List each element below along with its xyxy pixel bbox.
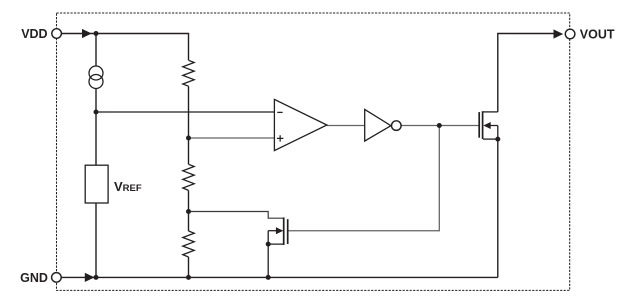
wire inverter output to node <box>401 125 439 127</box>
node GND rail left junction <box>94 275 99 280</box>
wire resistor column R2 to R3 <box>188 190 190 231</box>
svg-text:VOUT: VOUT <box>580 28 615 42</box>
wire M1 source down to GND rail <box>497 139 499 277</box>
node R3 bottom at GND rail <box>186 275 191 280</box>
wire resistor column R3 to GND rail <box>188 257 190 277</box>
node M2 source-bulk tie <box>266 242 271 247</box>
wire divider mid tap to M2 drain <box>189 212 284 219</box>
node M1 source-bulk tie <box>495 137 500 142</box>
node divider tap junction <box>186 136 191 141</box>
node inverter output junction <box>437 123 442 128</box>
transistor M2 hysteresis NMOS <box>268 217 288 277</box>
wire VDD rail: terminal to R1 top corner <box>61 34 188 61</box>
node M2 source at GND rail <box>266 275 271 280</box>
resistor R2 <box>183 164 194 190</box>
node VDD rail junction <box>94 31 99 36</box>
wire M1 drain up to VOUT rail <box>498 34 554 112</box>
node R2-R3 junction <box>186 209 191 214</box>
wire left column: VDD node down to current source <box>95 34 97 67</box>
wire inverting input: left column node to comparator - input <box>96 111 274 113</box>
svg-text:VREF: VREF <box>114 179 142 194</box>
comparator U1 <box>274 99 327 150</box>
inverter U2 <box>365 109 401 141</box>
node VREF / inverting input junction <box>94 110 99 115</box>
resistor R1 <box>183 60 194 86</box>
svg-text:GND: GND <box>20 271 48 285</box>
voltage reference VREF <box>85 165 142 203</box>
wire left column: current source to VREF top (through node) <box>95 89 97 166</box>
terminal VOUT <box>554 28 615 42</box>
resistor R3 <box>183 231 194 257</box>
wire left column: VREF bottom to GND rail <box>95 203 97 277</box>
wire resistor column R1 to R2 <box>188 86 190 164</box>
transistor M1 output NMOS <box>479 111 498 139</box>
current source I1 <box>89 66 103 89</box>
wire node to M1 gate <box>439 125 478 127</box>
terminal GND <box>20 271 94 285</box>
svg-text:VDD: VDD <box>21 27 47 41</box>
wire node down and left to M2 gate <box>288 126 439 231</box>
IC boundary dashed outline <box>57 13 570 290</box>
wire GND rail <box>61 276 498 278</box>
terminal VDD <box>21 27 92 41</box>
wire comparator output to inverter input <box>327 125 365 127</box>
wire non-inverting input: divider tap to comparator + input <box>189 137 275 139</box>
